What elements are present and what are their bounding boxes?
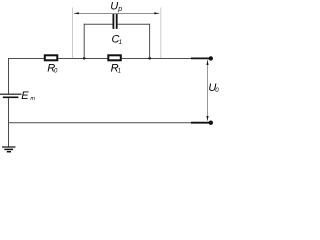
dimension Up: left arrowhead: [74, 12, 79, 14]
dimension Up: dimension line: [74, 12, 159, 14]
resistor R0: [45, 55, 58, 74]
node junction B (right of C1 branch): [148, 57, 151, 60]
output lead bottom (thick): [191, 122, 210, 124]
dimension U0: vertical dimension line: [207, 60, 209, 121]
dimension Up: right extension line: [160, 8, 162, 59]
svg-text:p: p: [117, 6, 122, 13]
svg-text:E: E: [21, 90, 29, 102]
dimension Up: left extension line: [71, 8, 73, 59]
label Up: [110, 1, 122, 14]
wire: top rail between R1 and output lead: [122, 58, 191, 60]
battery source Em: [0, 90, 35, 102]
wire: capacitor branch top-left segment: [84, 23, 113, 25]
wire: capacitor branch right vertical: [149, 24, 151, 59]
dimension U0: bottom arrowhead: [206, 116, 208, 121]
wire: capacitor branch left vertical: [83, 24, 85, 59]
svg-text:1: 1: [119, 40, 122, 46]
wire: bottom rail from left vertical to output lead: [9, 122, 192, 124]
ground: [2, 147, 16, 152]
dimension U0: top arrowhead: [206, 60, 208, 65]
dimension Up: right arrowhead: [154, 12, 159, 14]
svg-text:m: m: [30, 96, 35, 102]
output lead top (thick): [191, 57, 210, 59]
capacitor C1: [112, 14, 122, 46]
terminal dot top right: [209, 56, 213, 60]
wire: left vertical from battery down to ground: [8, 98, 10, 147]
svg-text:U: U: [110, 1, 118, 13]
svg-text:1: 1: [118, 69, 121, 75]
wire: capacitor branch top-right segment: [117, 23, 150, 25]
node junction A (left of C1 branch): [83, 57, 86, 60]
resistor R1: [108, 55, 121, 74]
wire: left vertical from top rail corner down to battery: [9, 59, 44, 94]
label U0: [208, 82, 219, 94]
wire: top rail between R0 and R1: [58, 58, 107, 60]
terminal dot bottom right: [209, 121, 213, 125]
